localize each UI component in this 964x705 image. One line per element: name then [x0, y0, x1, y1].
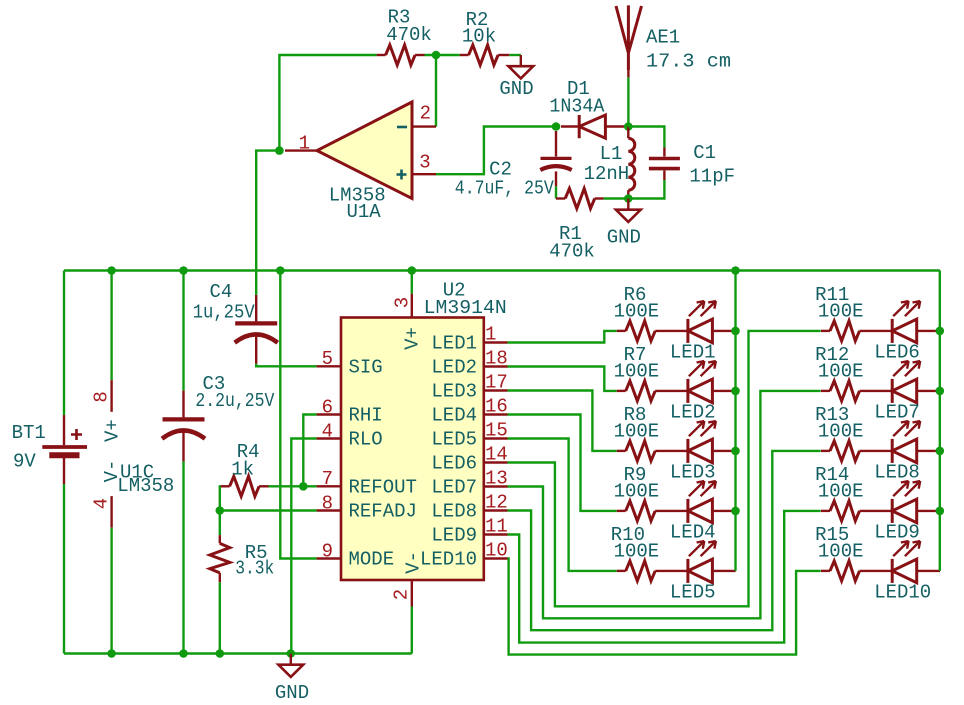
wire BT1 bottom lead — [63, 458, 65, 484]
wire R15 to LED10 — [860, 570, 893, 572]
svg-text:LM3914N: LM3914N — [424, 297, 507, 319]
svg-text:LED4: LED4 — [431, 405, 477, 427]
svg-text:100E: 100E — [614, 301, 660, 323]
junction LED1 anode bus — [731, 327, 740, 336]
wire U2 pin 11 to R14 — [508, 511, 821, 643]
diode D1 — [579, 115, 605, 138]
wire U2 pin 11 stub (LED9) — [484, 533, 508, 535]
wire LED4 anode lead — [712, 510, 735, 512]
svg-text:9: 9 — [322, 540, 333, 562]
resistor R12 — [830, 381, 860, 401]
svg-text:AE1: AE1 — [646, 27, 680, 49]
svg-text:C4: C4 — [209, 281, 232, 303]
wire U2 pin 17 stub (LED3) — [484, 389, 508, 391]
svg-text:C1: C1 — [693, 142, 716, 164]
LED diode LED3 — [688, 421, 716, 463]
wire C3 top — [182, 271, 184, 391]
wire R7 left pin lead — [617, 390, 626, 392]
wire R10 left pin lead — [617, 570, 626, 572]
wire R6 to LED1 — [655, 330, 688, 332]
svg-text:4: 4 — [91, 498, 113, 509]
wire U2 pin 15 stub (LED5) — [484, 437, 508, 439]
wire R8 left pin lead — [617, 450, 626, 452]
wire U1C pin8 up — [110, 271, 112, 381]
wire C4 top lead — [255, 295, 257, 322]
wire LED6 anode lead — [917, 330, 940, 332]
wire U2 pin2 to ground rail — [411, 607, 413, 654]
svg-text:LED2: LED2 — [431, 357, 477, 379]
svg-text:12nH: 12nH — [584, 163, 630, 185]
wire U1C pin4 down — [110, 528, 112, 654]
svg-text:4: 4 — [322, 420, 333, 442]
wire LED5 anode lead — [712, 570, 735, 572]
svg-text:LED10: LED10 — [874, 582, 931, 604]
junction U1C V+ rail — [107, 266, 116, 275]
wire U2 pin 1 stub (LED1) — [484, 341, 508, 343]
wire ground bottom rail — [64, 652, 412, 654]
wire V+ top rail — [64, 269, 940, 271]
svg-text:14: 14 — [485, 443, 508, 465]
LED diode LED10 — [892, 541, 920, 583]
svg-text:L1: L1 — [600, 143, 623, 165]
svg-text:LED9: LED9 — [431, 525, 477, 547]
svg-text:V+: V+ — [101, 419, 123, 442]
wire D1 anode lead — [605, 125, 624, 127]
wire RLO to ground rail — [291, 439, 316, 654]
svg-text:LED3: LED3 — [431, 381, 477, 403]
wire V+ rail to MODE pin — [280, 271, 316, 559]
wire R5 top pin lead — [219, 535, 221, 543]
battery BT1 — [42, 447, 87, 455]
resistor R2 — [469, 45, 499, 65]
wire C3 bottom — [182, 461, 184, 653]
capacitor C2 — [540, 158, 571, 170]
wire U2 pin 16 to R9 — [508, 415, 617, 511]
wire U2 pin 13 to R12 — [508, 391, 821, 618]
capacitor C4 symbol — [235, 323, 278, 342]
wire battery bottom — [63, 484, 65, 653]
wire U1A pin 1 output stub — [285, 149, 317, 151]
wire U2 pin 18 stub (LED2) — [484, 365, 508, 367]
wire U2 pin 10 to R15 — [508, 559, 821, 655]
resistor R3 — [386, 45, 416, 65]
svg-text:LED9: LED9 — [874, 522, 920, 544]
capacitor C3 symbol — [162, 419, 205, 438]
svg-text:LED8: LED8 — [431, 501, 477, 523]
svg-text:18: 18 — [485, 347, 508, 369]
svg-text:LED5: LED5 — [670, 582, 716, 604]
svg-text:17: 17 — [485, 371, 508, 393]
resistor R1 — [565, 189, 595, 209]
wire LED3 anode lead — [712, 450, 735, 452]
wire U1A pin 3 stub — [412, 173, 436, 175]
svg-text:RLO: RLO — [349, 429, 383, 451]
svg-text:REFOUT: REFOUT — [349, 476, 417, 498]
svg-text:LED1: LED1 — [431, 333, 477, 355]
svg-text:GND: GND — [499, 78, 533, 100]
junction U2 V+ rail — [408, 266, 417, 275]
minus sign U1A inverting input — [397, 126, 407, 129]
wire U2 pin 8 stub (REFADJ) — [317, 509, 341, 511]
junction LED3 anode bus — [731, 447, 740, 456]
wire R4 right pin lead — [259, 485, 268, 487]
svg-text:15: 15 — [485, 419, 508, 441]
svg-text:16: 16 — [485, 395, 508, 417]
resistor R11 — [830, 321, 860, 341]
svg-text:100E: 100E — [614, 541, 660, 563]
ground top GND — [508, 55, 533, 78]
wire U2 pin 9 stub (MODE) — [317, 557, 341, 559]
LED diode LED9 — [892, 481, 920, 523]
wire U2 pin 5 stub (SIG) — [317, 365, 341, 367]
resistor R5 — [210, 543, 230, 573]
svg-text:3.3k: 3.3k — [235, 558, 274, 580]
plus sign U1A non-inverting input — [397, 170, 407, 180]
wire LED9 anode lead — [917, 510, 940, 512]
svg-text:100E: 100E — [614, 421, 660, 443]
junction LED bus rail — [731, 266, 740, 275]
svg-text:11pF: 11pF — [689, 166, 735, 188]
svg-text:8: 8 — [322, 492, 333, 514]
junction C3 rail — [179, 266, 188, 275]
junction antenna/tank top node — [624, 122, 633, 131]
wire L1 top lead — [627, 127, 629, 139]
wire LED10 anode lead — [917, 570, 940, 572]
wire U2 pin 7 stub (REFOUT) — [317, 485, 341, 487]
junction LED6 anode bus — [936, 327, 945, 336]
wire REFADJ to R4/R5 node — [220, 509, 317, 511]
wire R4 to REFOUT pin — [269, 485, 317, 487]
junction R3/R2/pin2 node — [432, 51, 441, 60]
resistor R7 — [626, 381, 656, 401]
wire R3 to R2 — [425, 54, 460, 56]
wire R13 to LED8 — [860, 450, 893, 452]
ground bottom GND — [278, 654, 303, 677]
wire L1 bottom lead — [627, 190, 629, 198]
IC U2 LM3914N body — [341, 318, 484, 581]
capacitor C1 — [649, 159, 680, 169]
wire R11 to LED6 — [860, 330, 893, 332]
wire R15 left pin lead — [821, 570, 830, 572]
wire D1 to antenna node — [624, 125, 628, 127]
LED diode LED8 — [892, 421, 920, 463]
wire R1 right pin lead — [595, 197, 604, 199]
svg-text:LED2: LED2 — [670, 402, 716, 424]
svg-text:V+: V+ — [402, 327, 424, 350]
wire LED6-10 anode bus — [939, 271, 941, 571]
svg-text:RHI: RHI — [349, 405, 383, 427]
wire U1A pin3 to C2 node — [436, 127, 556, 175]
svg-text:2: 2 — [391, 589, 413, 600]
wire R14 to LED9 — [860, 510, 893, 512]
junction R5 ground rail — [216, 649, 225, 658]
wire LED8 anode lead — [917, 450, 940, 452]
svg-text:3: 3 — [392, 297, 414, 308]
svg-text:GND: GND — [275, 682, 309, 704]
junction RHI/REFOUT — [299, 482, 308, 491]
wire U1A pin 2 stub — [412, 125, 436, 127]
wire R12 to LED7 — [860, 390, 893, 392]
wire C1 to tank bottom — [628, 180, 664, 199]
wire R10 to LED5 — [655, 570, 688, 572]
wire LED2 anode lead — [712, 390, 735, 392]
wire U2 pin 14 stub (LED6) — [484, 461, 508, 463]
svg-text:SIG: SIG — [349, 356, 383, 378]
wire C3 bottom lead — [182, 429, 184, 462]
LED diode LED4 — [688, 481, 716, 523]
svg-text:1: 1 — [299, 133, 310, 155]
junction bottom GND node — [287, 649, 296, 658]
junction R4/R5/REFADJ node — [216, 506, 225, 515]
svg-text:1N34A: 1N34A — [549, 96, 605, 118]
wire D1 cathode lead — [561, 125, 579, 127]
wire R7 to LED2 — [655, 390, 688, 392]
svg-text:470k: 470k — [549, 241, 595, 263]
wire RHI to REFOUT node — [303, 415, 316, 487]
svg-text:LED10: LED10 — [420, 549, 477, 571]
wire op-amp output feedback up/right — [279, 55, 376, 151]
svg-text:6: 6 — [322, 396, 333, 418]
junction LED9 anode bus — [936, 507, 945, 516]
junction LED2 anode bus — [731, 387, 740, 396]
wire U2 pin 3 stub — [411, 294, 413, 318]
svg-text:LED6: LED6 — [874, 342, 920, 364]
wire R2 right pin lead — [498, 54, 509, 56]
junction U1C ground rail — [107, 649, 116, 658]
svg-text:100E: 100E — [614, 481, 660, 503]
svg-text:1u,25V: 1u,25V — [193, 302, 256, 324]
wire tank top to C1 — [628, 127, 664, 148]
wire U2 pin 15 to R10 — [508, 439, 617, 571]
svg-text:2: 2 — [420, 103, 431, 125]
wire R1 to tank bottom node — [604, 197, 629, 199]
wire R2 to GND — [509, 54, 521, 56]
inductor L1 — [628, 138, 635, 190]
wire U2 pin 6 stub (RHI) — [317, 413, 341, 415]
wire battery top — [63, 271, 65, 416]
wire C4 bottom lead — [255, 333, 257, 364]
LED diode LED2 — [688, 361, 716, 403]
wire LED7 anode lead — [917, 390, 940, 392]
junction LED8 anode bus — [936, 447, 945, 456]
wire U2 pin 10 stub (LED10) — [484, 557, 508, 559]
resistor R9 — [626, 501, 656, 521]
svg-text:5: 5 — [322, 348, 333, 370]
svg-text:10k: 10k — [462, 26, 496, 48]
svg-text:8: 8 — [90, 391, 112, 402]
node op-amp output junction — [275, 146, 284, 155]
resistor R13 — [830, 441, 860, 461]
wire C1 bottom lead — [663, 171, 665, 181]
svg-text:LED6: LED6 — [431, 453, 477, 475]
svg-text:10: 10 — [485, 539, 508, 561]
svg-text:1: 1 — [485, 323, 496, 345]
wire R5 to ground rail — [219, 582, 221, 653]
svg-text:13: 13 — [485, 467, 508, 489]
wire R8 to LED3 — [655, 450, 688, 452]
svg-text:17.3 cm: 17.3 cm — [646, 51, 731, 73]
wire R2 left pin lead — [460, 54, 469, 56]
svg-text:3: 3 — [419, 152, 430, 174]
wire LED1 anode lead — [712, 330, 735, 332]
svg-text:1k: 1k — [231, 459, 254, 481]
wire C1 top lead — [663, 148, 665, 157]
resistor R10 — [626, 561, 656, 581]
plus sign BT1 — [71, 429, 82, 440]
wire U2 pin 17 to R8 — [508, 391, 617, 451]
svg-text:U1A: U1A — [346, 201, 381, 223]
junction tank bottom node — [624, 194, 633, 203]
svg-text:4.7uF, 25V: 4.7uF, 25V — [455, 178, 555, 200]
wire U2 V+ from rail — [411, 271, 413, 294]
svg-text:LED7: LED7 — [431, 477, 477, 499]
wire junction to R5 — [219, 511, 221, 536]
svg-text:2.2u,25V: 2.2u,25V — [195, 390, 275, 412]
wire R12 left pin lead — [821, 390, 830, 392]
wire U2 pin 1 to R6 — [508, 331, 617, 343]
wire R9 to LED4 — [655, 510, 688, 512]
svg-text:12: 12 — [485, 491, 508, 513]
wire R5 bottom pin lead — [219, 573, 221, 582]
svg-text:MODE: MODE — [349, 549, 395, 571]
svg-text:100E: 100E — [818, 301, 864, 323]
LED diode LED1 — [688, 301, 716, 343]
svg-text:LED1: LED1 — [670, 342, 716, 364]
svg-text:LED3: LED3 — [670, 462, 716, 484]
resistor R15 — [830, 561, 860, 581]
svg-text:LED4: LED4 — [670, 522, 716, 544]
wire R3 left pin lead — [377, 54, 386, 56]
wire R1 left pin lead — [556, 197, 565, 199]
wire C3 top lead — [182, 391, 184, 418]
wire R14 left pin lead — [821, 510, 830, 512]
wire inverting input vertical — [435, 55, 437, 127]
LED diode LED6 — [892, 301, 920, 343]
op-amp U1A — [317, 102, 412, 199]
svg-text:REFADJ: REFADJ — [349, 501, 417, 523]
ground tank GND — [616, 199, 641, 222]
LED diode LED7 — [892, 361, 920, 403]
wire R3 right pin lead — [415, 54, 424, 56]
svg-text:100E: 100E — [818, 421, 864, 443]
wire BT1 top lead — [63, 415, 65, 445]
LED diode LED5 — [688, 541, 716, 583]
wire R9 left pin lead — [617, 510, 626, 512]
wire antenna feed — [627, 77, 629, 126]
antenna AE1 — [616, 5, 642, 77]
svg-text:100E: 100E — [818, 481, 864, 503]
wire R13 left pin lead — [821, 450, 830, 452]
resistor R8 — [626, 441, 656, 461]
junction LED7 anode bus — [936, 387, 945, 396]
svg-text:LM358: LM358 — [117, 475, 174, 497]
wire U1C pin 4 stub — [110, 496, 112, 528]
junction C3 ground rail — [179, 649, 188, 658]
wire U2 pin 16 stub (LED4) — [484, 413, 508, 415]
junction MODE line rail — [276, 266, 285, 275]
resistor R6 — [626, 321, 656, 341]
wire C2 to R1 — [555, 186, 557, 198]
wire R6 left pin lead — [617, 330, 626, 332]
svg-text:GND: GND — [607, 227, 641, 249]
svg-text:100E: 100E — [614, 361, 660, 383]
svg-text:9V: 9V — [13, 451, 36, 473]
wire U2 pin 18 to R7 — [508, 367, 617, 391]
svg-text:LED7: LED7 — [874, 402, 920, 424]
wire U1C pin 8 stub — [110, 380, 112, 412]
wire C4 to SIG — [256, 364, 316, 367]
wire U2 pin 12 to R13 — [508, 451, 821, 630]
wire R4 left down — [219, 486, 222, 510]
resistor R4 — [230, 476, 260, 496]
svg-text:LED5: LED5 — [431, 429, 477, 451]
wire U2 pin 2 stub — [411, 580, 413, 607]
wire U2 pin 14 to R11 — [508, 331, 821, 606]
svg-text:470k: 470k — [386, 24, 432, 46]
wire op-amp output to C4 — [256, 151, 279, 295]
junction LED4 anode bus — [731, 507, 740, 516]
svg-text:11: 11 — [485, 515, 508, 537]
svg-text:100E: 100E — [818, 361, 864, 383]
wire C2 bottom lead — [555, 171, 557, 186]
svg-text:7: 7 — [322, 468, 333, 490]
wire U2 pin 4 stub (RLO) — [317, 437, 341, 439]
junction C2/D1 node — [552, 122, 561, 131]
svg-text:BT1: BT1 — [12, 422, 46, 444]
wire U2 pin 12 stub (LED8) — [484, 509, 508, 511]
svg-text:LED8: LED8 — [874, 462, 920, 484]
wire R11 left pin lead — [821, 330, 830, 332]
svg-text:100E: 100E — [818, 541, 864, 563]
wire R4 left pin lead — [220, 485, 229, 487]
wire U2 pin 13 stub (LED7) — [484, 485, 508, 487]
wire LED1-5 anode bus — [734, 271, 736, 571]
resistor R14 — [830, 501, 860, 521]
wire C2 top lead — [555, 131, 557, 157]
